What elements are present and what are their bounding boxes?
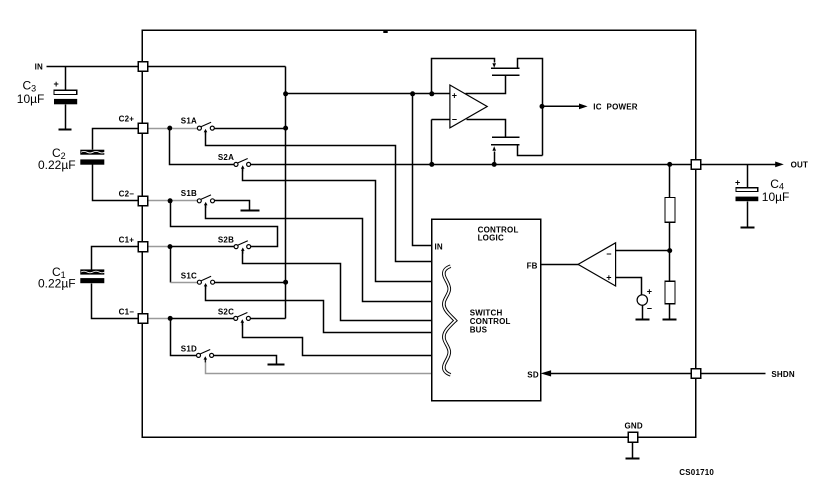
capacitor C3	[17, 78, 77, 106]
wire C1+ pin to C1	[92, 247, 139, 270]
svg-text:S2B: S2B	[218, 235, 234, 244]
capacitor C4	[735, 177, 789, 204]
svg-text:0.22µF: 0.22µF	[38, 158, 76, 172]
svg-text:0.22µF: 0.22µF	[38, 277, 76, 291]
svg-text:OUT: OUT	[791, 161, 809, 170]
svg-text:SD: SD	[527, 371, 539, 380]
svg-text:C1−: C1−	[119, 307, 135, 316]
pin square C2+	[138, 123, 148, 133]
wire upper mosfet drain to rail	[518, 59, 543, 156]
svg-text:−: −	[606, 249, 611, 259]
wire op-amp inverting input line	[432, 119, 450, 121]
svg-text:IN: IN	[435, 243, 443, 252]
wire SD from SHDN pin	[550, 373, 692, 375]
wire S1C right contact to IN rail	[215, 282, 286, 284]
IC boundary box	[142, 30, 696, 437]
wire VOUT rail	[251, 164, 692, 166]
svg-text:+: +	[606, 273, 611, 283]
wire SHDN external	[701, 373, 766, 375]
wire C1+ node down to S1C	[170, 247, 172, 283]
resistor R1	[665, 198, 675, 223]
voltage reference V1	[637, 286, 652, 313]
wire C2- pin to node gray	[148, 200, 169, 202]
wire C3 stub bottom	[65, 105, 67, 130]
svg-text:S1B: S1B	[181, 189, 197, 198]
wire lower mosfet drain	[518, 145, 543, 156]
svg-text:BUS: BUS	[470, 326, 488, 335]
svg-text:S1A: S1A	[181, 116, 197, 125]
svg-text:+: +	[452, 91, 457, 101]
wire op-amp noninverting input line	[286, 93, 450, 95]
SD input arrow	[541, 370, 552, 376]
ground bar S1B	[241, 210, 260, 212]
ground bar S1D	[268, 364, 285, 366]
svg-text:C1+: C1+	[119, 236, 135, 245]
wire IN net vertical rail	[285, 67, 287, 319]
svg-text:+: +	[735, 178, 740, 188]
top edge tick	[383, 31, 387, 33]
wire node to S1A left contact gray	[173, 128, 198, 130]
wire C3 stub top	[65, 67, 67, 91]
wire GND pin stub	[632, 443, 634, 459]
wire node to S1B left contact gray	[173, 200, 198, 202]
ground bar C3	[59, 129, 72, 131]
pin square SHDN	[691, 369, 701, 379]
wire C1+ pin to node gray	[148, 246, 168, 248]
switch S1B	[197, 195, 214, 208]
Q2 gate arrow	[492, 146, 496, 151]
op-amp U1 gate driver	[450, 85, 487, 128]
svg-text:S1D: S1D	[181, 344, 197, 353]
wire gate drive loop upper	[432, 59, 495, 94]
svg-text:S1C: S1C	[181, 271, 197, 280]
pin square C1-	[138, 314, 148, 324]
wire R divider rail	[669, 165, 671, 320]
svg-text:IC POWER: IC POWER	[593, 102, 637, 111]
wire C2- to S2B right contact	[171, 201, 278, 247]
transistor Q2 lower mosfet	[491, 137, 520, 145]
wire IN to control logic	[413, 94, 432, 246]
wire reference to ground	[642, 306, 644, 320]
switch control bus squiggle	[444, 266, 455, 375]
ground bar R2	[663, 319, 677, 321]
svg-text:+: +	[647, 286, 652, 296]
wire lower mosfet gate from rail	[494, 152, 496, 165]
wire FB comparator noninverting input to reference	[616, 278, 642, 296]
svg-text:C2−: C2−	[119, 189, 135, 198]
wire C2+ pin to node gray	[148, 128, 168, 130]
ground bar reference	[636, 319, 650, 321]
pin square C1+	[138, 242, 148, 252]
wire S1D control gray	[206, 360, 432, 374]
switch S1D	[197, 350, 214, 363]
svg-text:10µF: 10µF	[17, 92, 45, 106]
svg-text:S2A: S2A	[218, 153, 234, 162]
svg-text:IN: IN	[35, 63, 43, 72]
switch S2C	[234, 313, 251, 326]
control logic block	[432, 219, 541, 401]
svg-text:−: −	[647, 304, 652, 314]
capacitor C1	[38, 265, 105, 291]
wire FB comparator inverting input	[616, 250, 670, 252]
wire S1A control	[206, 132, 432, 262]
ground bar C4	[741, 227, 755, 229]
transistor Q1 upper mosfet	[491, 68, 520, 75]
wire C1 to C1- pin	[92, 284, 139, 319]
wire C4 stub bottom	[747, 202, 749, 228]
switch S2B	[234, 241, 251, 254]
switch S2A	[234, 159, 251, 172]
wire S1B right contact to ground	[215, 201, 250, 211]
wire S1A right contact to IN rail	[215, 128, 286, 130]
switch S1C	[197, 276, 214, 289]
wire C4 stub top	[747, 165, 749, 188]
wire OUT external	[701, 164, 777, 166]
svg-text:S2C: S2C	[218, 308, 234, 317]
Q1 gate arrow	[492, 63, 496, 68]
pin square IN	[138, 62, 148, 72]
wire C1- pin to node gray	[148, 318, 169, 320]
svg-text:CS01710: CS01710	[679, 468, 714, 477]
node IC POWER arrow	[542, 102, 638, 111]
wire IN net horizontal	[148, 66, 286, 68]
wire C1- node down to S1D	[171, 319, 197, 356]
wire node to S1C left contact gray	[171, 282, 198, 284]
svg-text:C2+: C2+	[119, 115, 135, 124]
wire S2C control	[243, 323, 432, 356]
svg-text:10µF: 10µF	[762, 190, 790, 204]
wire inverting side down to vout rail	[431, 120, 433, 165]
wire S2C right contact to rail	[251, 318, 286, 320]
pin square GND	[628, 432, 638, 442]
svg-text:−: −	[452, 115, 457, 125]
wire S2A left branch from C2+ node	[170, 129, 235, 165]
pin square OUT	[691, 160, 701, 170]
wire C2+ pin to C2	[93, 129, 139, 150]
wire C1+ node to S2B left contact	[172, 246, 235, 248]
svg-text:CONTROL: CONTROL	[470, 317, 511, 326]
wire C2 to C2- pin	[93, 165, 139, 201]
pin square C2-	[138, 196, 148, 206]
wire FB comparator output to control logic	[541, 264, 579, 266]
wire S1B control	[206, 205, 432, 302]
capacitor C2	[38, 146, 105, 172]
wire S1D right contact to ground	[214, 356, 277, 365]
wire C1- node to S2C left contact	[172, 318, 234, 320]
wire upper mosfet source	[466, 76, 506, 94]
wire S1C control	[206, 286, 432, 333]
wire S2B control	[243, 251, 432, 321]
svg-text:SHDN: SHDN	[771, 370, 794, 379]
switch S1A	[197, 122, 214, 135]
wire S2A control	[243, 169, 432, 282]
svg-text:GND: GND	[625, 422, 643, 431]
svg-text:FB: FB	[527, 261, 538, 270]
wire lower mosfet source	[467, 120, 506, 138]
svg-text:+: +	[54, 79, 59, 89]
svg-text:LOGIC: LOGIC	[478, 233, 504, 242]
wire IN external	[47, 66, 139, 68]
resistor R2	[665, 281, 675, 303]
OUT arrow	[775, 162, 784, 168]
svg-text:SWITCH: SWITCH	[470, 308, 503, 317]
ground bar GND pin	[626, 458, 640, 460]
comparator U2 feedback	[578, 243, 616, 286]
